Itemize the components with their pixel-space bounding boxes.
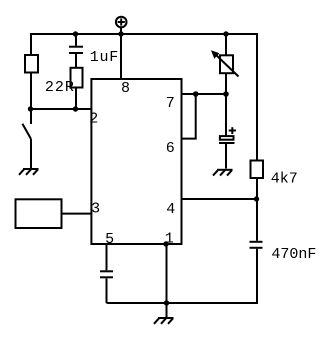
wire pin 7 bbox=[182, 93, 227, 95]
wire left drop to resistor bbox=[30, 33, 32, 55]
op-amp/timer U1 (IC box) bbox=[91, 79, 181, 244]
capacitor C1 1uF bbox=[69, 34, 83, 68]
resistor R2 22R bbox=[71, 68, 83, 88]
wire top rail bbox=[31, 33, 257, 35]
wire pot top bbox=[225, 34, 227, 55]
node junction pin7 / pot branch bbox=[223, 91, 229, 97]
wire pin2 rail bbox=[31, 108, 91, 110]
svg-text:4: 4 bbox=[166, 201, 175, 218]
wire C4 to bottom rail bbox=[106, 278, 108, 303]
node junction top rail / 1uF branch bbox=[73, 31, 78, 36]
potentiometer VR1 bbox=[211, 50, 239, 76]
resistor R3 4k7 bbox=[251, 161, 264, 179]
wire pin 4 bbox=[182, 198, 258, 200]
node junction pin1 at IC bottom bbox=[163, 241, 168, 246]
capacitor C4 (pin5 decoupling) bbox=[100, 271, 113, 277]
wire 22R to pin2 rail bbox=[75, 88, 77, 110]
svg-text:6: 6 bbox=[166, 140, 175, 157]
wire pin 5 to C4 bbox=[106, 244, 108, 270]
svg-text:22R: 22R bbox=[45, 79, 75, 96]
wire pin 8 supply bbox=[120, 34, 122, 79]
node junction pin2 rail / 22R branch bbox=[73, 106, 78, 111]
wire pin4 node to 470nF bbox=[256, 199, 258, 241]
svg-text:470nF: 470nF bbox=[271, 246, 316, 263]
svg-text:3: 3 bbox=[91, 200, 100, 217]
capacitor C3 470nF bbox=[250, 242, 263, 248]
svg-text:8: 8 bbox=[121, 80, 130, 97]
wire pin 1 to ground bbox=[166, 244, 168, 317]
switch S1 bbox=[22, 109, 31, 169]
ground (switch) bbox=[19, 169, 39, 175]
node junction top rail / pot branch bbox=[223, 31, 228, 36]
svg-text:4k7: 4k7 bbox=[271, 171, 298, 188]
ground (electrolytic) bbox=[213, 170, 233, 176]
wire pin 6 loop bbox=[182, 94, 196, 139]
node junction top rail / pin8 supply bbox=[118, 31, 123, 36]
power supply symbol +V bbox=[116, 17, 127, 34]
svg-text:7: 7 bbox=[166, 95, 175, 112]
node junction pin2 rail left bbox=[28, 106, 33, 111]
resistor R1 (unlabelled) bbox=[25, 55, 38, 73]
ground (pin 1) bbox=[154, 318, 174, 324]
wire pot junction to electrolytic bbox=[225, 94, 227, 136]
capacitor C2 electrolytic (+) bbox=[219, 127, 236, 168]
wire 4k7 to pin4 node bbox=[256, 178, 258, 199]
wire pin 3 bbox=[62, 213, 92, 215]
wire 470nF to bottom rail bbox=[107, 249, 258, 303]
node junction pin7 / pin6 loop bbox=[193, 91, 199, 97]
node junction pin4 / right rail bbox=[254, 196, 259, 201]
svg-text:2: 2 bbox=[89, 111, 98, 128]
wire pot bottom bbox=[225, 73, 227, 94]
wire right rail top bbox=[256, 34, 257, 161]
wire resistor to pin2 rail bbox=[30, 73, 32, 110]
svg-text:1uF: 1uF bbox=[90, 49, 119, 66]
node junction bottom rail bbox=[164, 300, 169, 305]
output box (load) bbox=[16, 199, 62, 228]
